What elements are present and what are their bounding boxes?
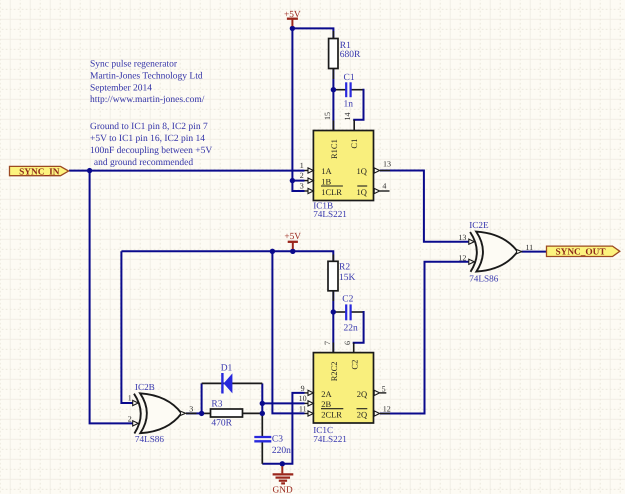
svg-text:15: 15 — [323, 112, 332, 120]
resistor R3 — [211, 409, 243, 417]
svg-text:6: 6 — [343, 341, 352, 345]
svg-text:1Q: 1Q — [357, 187, 367, 197]
wire IC1B pin 13 to IC2E pin 13 — [380, 171, 470, 242]
junction IC1B pin 2 tap — [290, 178, 295, 183]
IC1B pin 13 stub — [374, 168, 390, 173]
port SYNC_IN — [10, 166, 69, 177]
svg-text:13: 13 — [383, 160, 391, 169]
capacitor C2 — [346, 304, 350, 320]
pin R1 top black segment — [332, 31, 334, 39]
svg-text:D1: D1 — [221, 363, 233, 373]
XOR gate IC2B body — [134, 393, 182, 433]
resistor R1 — [329, 39, 338, 69]
pin IC1B pin 15 black segment — [332, 121, 334, 131]
junction R2/C2 node — [331, 309, 336, 314]
junction IC2B output node — [199, 411, 204, 416]
svg-text:5: 5 — [382, 384, 386, 393]
svg-text:3: 3 — [300, 181, 304, 190]
svg-text:11: 11 — [525, 243, 533, 252]
wire IC1C pin 12 to IC2E pin 12 — [380, 262, 470, 414]
svg-text:1CLR: 1CLR — [321, 187, 342, 197]
svg-text:2CLR: 2CLR — [321, 410, 342, 420]
IC1B pin 1 stub — [305, 168, 314, 173]
wire IC2E output to SYNC_OUT port — [522, 251, 547, 253]
svg-text:470R: 470R — [211, 419, 232, 429]
wire C2 right plate to IC1C pin 6 — [351, 311, 363, 313]
svg-text:C2: C2 — [342, 295, 353, 305]
svg-text:10: 10 — [299, 394, 307, 403]
capacitor C1 — [346, 82, 350, 97]
svg-text:1B: 1B — [321, 176, 331, 186]
power +5V top — [284, 10, 301, 26]
wire R3/C3 node to IC1C pin 10 — [262, 402, 304, 404]
svg-text:SYNC_OUT: SYNC_OUT — [555, 248, 606, 258]
IC2B input pin 2 arrow — [133, 421, 139, 426]
IC1C pin 9 stub — [305, 390, 314, 395]
capacitor C3 — [254, 437, 271, 441]
pin R1 bottom black segment — [332, 69, 334, 80]
svg-text:100nF decoupling between +5V: 100nF decoupling between +5V — [90, 146, 212, 156]
svg-text:220n: 220n — [272, 446, 291, 456]
svg-text:and ground recommended: and ground recommended — [92, 158, 194, 168]
wire SYNC_IN to IC1B pin 1 — [69, 170, 305, 172]
svg-text:3: 3 — [189, 404, 193, 413]
wire C3 bottom to GND rail and up to IC1C pin 9 — [262, 393, 304, 464]
IC2E output pin 11 arrow — [517, 250, 522, 254]
svg-text:22n: 22n — [344, 324, 359, 334]
svg-text:1A: 1A — [321, 166, 332, 176]
note text block 1 — [90, 60, 205, 106]
pin IC1C pin 7 black segment — [332, 343, 334, 353]
wire R2/C2 junction to C2 left plate — [333, 311, 345, 313]
junction IC1C pin 10 tap — [260, 401, 265, 406]
wire R2 bottom to IC1C pin 7 — [332, 291, 334, 353]
svg-text:11: 11 — [299, 404, 307, 413]
svg-text:7: 7 — [323, 341, 332, 345]
svg-text:C1: C1 — [344, 73, 355, 83]
IC1B pin 3 stub — [305, 188, 314, 193]
wire D1 horizontal (diode pins) — [202, 382, 263, 384]
svg-text:2: 2 — [128, 415, 132, 424]
svg-text:2: 2 — [300, 171, 304, 180]
svg-text:4: 4 — [382, 181, 386, 190]
ground GND symbol — [273, 466, 294, 483]
resistor R2 — [328, 261, 338, 291]
IC1B body 74LS221 — [313, 131, 373, 201]
junction +5V stem node — [290, 249, 295, 254]
svg-text:74LS86: 74LS86 — [469, 274, 499, 284]
port SYNC_OUT — [547, 246, 620, 257]
IC1C pin 10 stub — [305, 401, 314, 406]
diode D1 — [222, 373, 232, 394]
svg-text:74LS221: 74LS221 — [313, 209, 347, 219]
svg-text:12: 12 — [383, 405, 391, 414]
junction top +5V node — [290, 26, 295, 31]
svg-text:Sync pulse regenerator: Sync pulse regenerator — [90, 60, 178, 70]
IC2E input pin 13 arrow — [469, 239, 475, 244]
wire R3 right pin — [243, 412, 263, 414]
svg-text:+5V: +5V — [284, 232, 301, 242]
svg-text:Martin-Jones Technology Ltd: Martin-Jones Technology Ltd — [90, 71, 203, 81]
wire node up left side of D1 — [201, 383, 203, 413]
svg-text:14: 14 — [343, 113, 352, 121]
svg-text:R2C2: R2C2 — [329, 361, 339, 381]
svg-text:2A: 2A — [321, 389, 332, 399]
wire IC2B output to node — [186, 412, 202, 414]
pin R2 bottom black segment — [332, 291, 334, 301]
IC2B output pin 3 arrow — [181, 411, 186, 415]
svg-text:12: 12 — [458, 253, 466, 262]
wire +5V rail to IC1C pin 11 (2CLR) — [272, 251, 304, 413]
IC1B pin 4 stub — [374, 188, 389, 193]
svg-text:74LS86: 74LS86 — [135, 434, 165, 444]
svg-text:15K: 15K — [339, 273, 356, 283]
wire R3 left pin — [202, 412, 211, 414]
pin R2 top black segment — [332, 255, 334, 262]
svg-text:1Q: 1Q — [357, 166, 367, 176]
svg-text:http://www.martin-jones.com/: http://www.martin-jones.com/ — [90, 95, 205, 105]
svg-text:GND: GND — [273, 486, 293, 494]
svg-text:9: 9 — [301, 384, 305, 393]
wire C3 bottom pin — [261, 442, 263, 464]
svg-text:1: 1 — [128, 394, 132, 403]
svg-text:680R: 680R — [340, 50, 361, 60]
svg-text:13: 13 — [458, 233, 466, 242]
IC1C body 74LS221 — [313, 353, 373, 423]
wire C3 top pin — [261, 413, 263, 436]
power +5V middle — [284, 232, 301, 249]
wire top +5V to R1 and down to IC1B pin 15 — [292, 28, 333, 130]
XOR gate IC2E body — [470, 232, 517, 272]
svg-text:September 2014: September 2014 — [90, 83, 152, 93]
svg-text:2Q: 2Q — [357, 389, 367, 399]
wire R1/C1 junction to C1 left plate — [333, 89, 345, 91]
svg-text:Ground to IC1 pin 8, IC2 pin 7: Ground to IC1 pin 8, IC2 pin 7 — [90, 122, 208, 132]
svg-text:R2: R2 — [339, 263, 350, 273]
svg-text:1n: 1n — [344, 99, 354, 109]
svg-text:C3: C3 — [272, 434, 283, 444]
wire C1 right plate to IC1B pin 14 — [351, 89, 363, 91]
junction R1/C1 node — [331, 87, 336, 92]
junction 2CLR tap — [270, 249, 275, 254]
IC1C pin 12 stub — [374, 411, 390, 416]
svg-text:C1: C1 — [349, 139, 359, 149]
svg-text:2B: 2B — [321, 399, 331, 409]
black pin wires — [202, 31, 334, 464]
junction SYNC_IN node — [87, 168, 92, 173]
wire SYNC_IN branch down to IC2B pin 2 — [90, 171, 134, 424]
wire right side of D1 down to R3 node — [261, 383, 263, 413]
svg-text:R3: R3 — [211, 399, 222, 409]
svg-text:SYNC_IN: SYNC_IN — [19, 167, 60, 177]
svg-text:74LS221: 74LS221 — [313, 434, 347, 444]
junction R3/D1/C3 node — [260, 411, 265, 416]
svg-text:+5V to IC1 pin 16, IC2 pin 14: +5V to IC1 pin 16, IC2 pin 14 — [90, 134, 205, 144]
svg-text:IC2E: IC2E — [469, 220, 489, 230]
IC1B pin 2 stub — [305, 178, 314, 183]
IC1C pin 5 stub — [374, 390, 386, 395]
svg-text:IC2B: IC2B — [135, 382, 155, 392]
wire top +5V down to IC1B pins 2,3 — [292, 28, 304, 191]
junction GND node — [280, 461, 285, 466]
IC2E input pin 12 arrow — [469, 259, 475, 264]
svg-text:C2: C2 — [349, 360, 359, 370]
wire +5V horizontal rail to R2 top — [121, 251, 333, 261]
note text block 2 — [90, 122, 212, 168]
IC2B input pin 1 arrow — [133, 400, 139, 405]
svg-text:2Q: 2Q — [357, 410, 367, 420]
IC1C pin 11 stub — [305, 411, 314, 416]
svg-text:R1C1: R1C1 — [329, 139, 339, 159]
wire +5V rail down to IC2B pin 1 — [121, 251, 133, 403]
svg-text:1: 1 — [300, 161, 304, 170]
